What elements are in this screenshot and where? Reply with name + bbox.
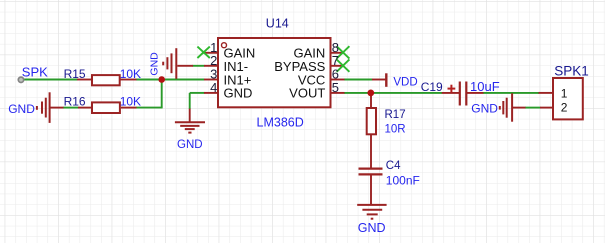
svg-text:1: 1 — [561, 86, 568, 100]
svg-text:GND: GND — [224, 86, 253, 101]
svg-text:5: 5 — [332, 80, 339, 95]
svg-text:VDD: VDD — [393, 76, 417, 88]
svg-text:GND: GND — [177, 139, 203, 151]
svg-text:10R: 10R — [385, 124, 406, 136]
svg-text:100nF: 100nF — [386, 173, 420, 187]
svg-text:GND: GND — [358, 221, 386, 235]
svg-text:GND: GND — [471, 102, 498, 116]
svg-text:2: 2 — [561, 101, 568, 115]
svg-text:C19: C19 — [421, 80, 443, 94]
svg-text:LM386D: LM386D — [257, 115, 304, 129]
svg-text:C4: C4 — [386, 160, 401, 172]
svg-text:SPK1: SPK1 — [554, 63, 589, 78]
svg-text:10uF: 10uF — [470, 79, 500, 94]
svg-text:VOUT: VOUT — [289, 86, 325, 101]
svg-text:4: 4 — [210, 80, 217, 95]
svg-text:R17: R17 — [385, 109, 406, 121]
svg-text:U14: U14 — [266, 17, 289, 31]
svg-text:GND: GND — [148, 52, 160, 76]
svg-text:SPK: SPK — [22, 64, 48, 79]
svg-text:10K: 10K — [120, 67, 141, 81]
svg-text:GND: GND — [8, 102, 35, 116]
svg-text:10K: 10K — [120, 94, 141, 108]
svg-text:R16: R16 — [64, 94, 86, 108]
svg-text:R15: R15 — [64, 67, 86, 81]
